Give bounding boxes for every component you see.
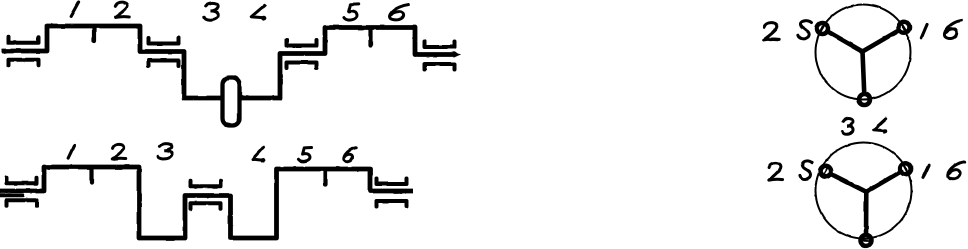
doubled stub at left [0, 194, 23, 197]
node interiors [816, 22, 830, 36]
Y junction [864, 189, 869, 194]
tick between 1 and 2 [89, 169, 93, 183]
node slash 2-5 [824, 167, 828, 175]
label 5 [800, 161, 813, 179]
winding Y line to node 2-5 [826, 171, 867, 192]
bracket pair right terminal [425, 42, 455, 70]
node interiors [819, 164, 833, 178]
winding Y line to node 3-4 [864, 192, 869, 241]
label 3 [158, 144, 172, 159]
label 4 between diagrams [874, 119, 888, 134]
node slash 3-4 [860, 98, 869, 100]
stator circle [816, 5, 911, 100]
label 1 [923, 165, 929, 177]
tick between 5 and 6 [323, 171, 327, 185]
winding Y line to node 2-5 [823, 29, 863, 52]
node slash 3-4 [862, 239, 871, 241]
label 4 [251, 5, 266, 20]
label 5 [298, 148, 311, 162]
label 2 [115, 2, 129, 17]
terminal node 3-4 [861, 235, 872, 246]
label 6 [344, 148, 356, 162]
label 3 [204, 3, 218, 20]
label 5 [344, 4, 359, 20]
label 3 between diagrams [842, 119, 853, 135]
tick between 1 and 2 [92, 28, 96, 41]
wire main path right part [240, 28, 455, 99]
bracket pair middle shelf [191, 181, 221, 209]
capacitor capsule element between 3 and 4 [223, 78, 240, 126]
bracket pair left terminal [7, 178, 37, 206]
tick between 5 and 6 [368, 29, 372, 46]
label 1 [71, 2, 79, 16]
terminal node 3-4 [859, 94, 870, 105]
node slash 1-6 [904, 165, 908, 173]
bracket pair shelf 1 [149, 38, 179, 66]
terminal node 1-6 [899, 22, 910, 33]
label 2 [764, 23, 780, 40]
bracket pair shelf 2 [287, 40, 317, 68]
label 6 [948, 162, 965, 179]
label 4 [253, 147, 265, 163]
node slash 2-5 [820, 25, 825, 33]
winding Y line to node 1-6 [866, 169, 905, 192]
bracket pair left terminal [9, 37, 39, 65]
label 1 [68, 145, 74, 158]
stator circle [816, 143, 912, 239]
node slash 1-6 [902, 23, 907, 31]
bracket pair right terminal [377, 179, 407, 207]
label 2 [112, 144, 125, 159]
label 6 [944, 20, 961, 38]
winding Y line to node 1-6 [863, 27, 905, 51]
winding Y line to node 3-4 [863, 52, 865, 100]
wire main path left part [2, 26, 222, 98]
label 6 [390, 5, 409, 20]
label 1 [921, 24, 927, 37]
terminal node 1-6 [900, 163, 911, 174]
label 5 [798, 21, 812, 39]
wire main path [0, 167, 413, 238]
Y junction [860, 49, 865, 54]
terminal node 2-5 [817, 23, 828, 34]
terminal node 2-5 [820, 166, 831, 177]
label 2 [769, 163, 783, 180]
arrow at right end [454, 51, 461, 57]
